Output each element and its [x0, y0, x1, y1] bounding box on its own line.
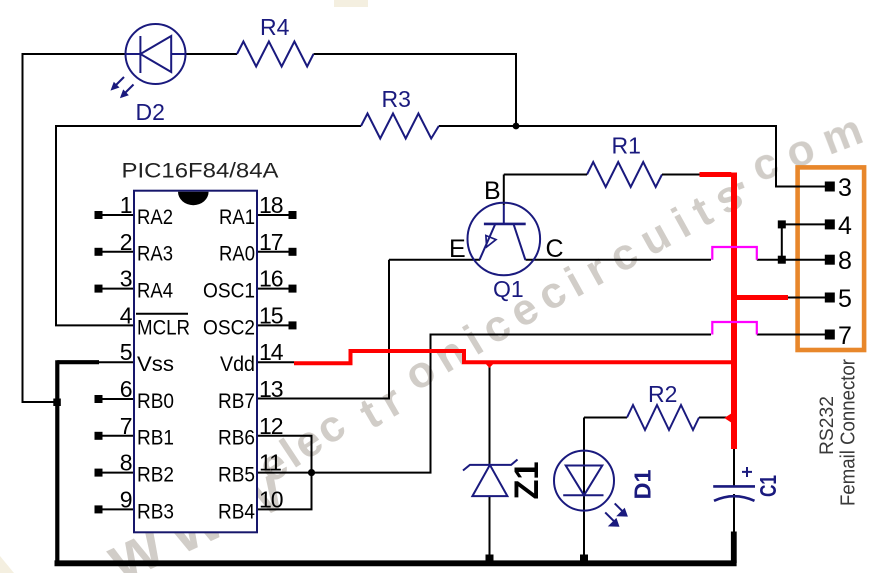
svg-text:4: 4: [120, 302, 133, 328]
svg-text:14: 14: [259, 339, 284, 365]
svg-text:8: 8: [120, 450, 132, 476]
svg-text:5: 5: [120, 339, 132, 365]
svg-text:B: B: [484, 177, 501, 205]
svg-text:Femail Connector: Femail Connector: [838, 359, 860, 506]
svg-text:RA4: RA4: [137, 280, 173, 303]
svg-text:MCLR: MCLR: [137, 316, 190, 339]
svg-text:18: 18: [259, 192, 283, 218]
svg-text:R3: R3: [382, 86, 411, 112]
svg-text:PIC16F84/84A: PIC16F84/84A: [122, 158, 280, 182]
svg-text:Vdd: Vdd: [220, 353, 255, 376]
svg-text:3: 3: [120, 266, 132, 292]
svg-text:RA1: RA1: [219, 206, 255, 229]
svg-text:E: E: [449, 235, 466, 263]
svg-text:RB6: RB6: [218, 427, 255, 450]
svg-text:9: 9: [120, 486, 132, 512]
svg-text:2: 2: [120, 229, 132, 255]
svg-text:Vss: Vss: [137, 353, 174, 376]
svg-text:RA3: RA3: [137, 243, 173, 266]
svg-text:R2: R2: [648, 381, 677, 407]
svg-text:RB1: RB1: [137, 427, 174, 450]
svg-text:10: 10: [259, 486, 283, 512]
svg-text:11: 11: [259, 450, 281, 476]
svg-text:C: C: [546, 235, 564, 263]
svg-text:13: 13: [259, 376, 283, 402]
svg-text:12: 12: [259, 413, 283, 439]
svg-text:5: 5: [838, 285, 852, 313]
svg-text:R4: R4: [260, 14, 290, 40]
svg-text:1: 1: [120, 192, 132, 218]
svg-text:R1: R1: [612, 133, 641, 159]
svg-text:D2: D2: [136, 99, 165, 125]
svg-text:3: 3: [838, 174, 852, 202]
svg-text:Z1: Z1: [508, 462, 546, 500]
svg-text:OSC2: OSC2: [203, 316, 255, 339]
svg-text:15: 15: [259, 302, 283, 328]
svg-text:RA2: RA2: [137, 206, 173, 229]
svg-text:RB7: RB7: [218, 390, 255, 413]
svg-text:7: 7: [120, 413, 132, 439]
svg-text:4: 4: [838, 212, 852, 240]
svg-text:17: 17: [259, 229, 283, 255]
svg-text:RB3: RB3: [137, 500, 174, 523]
svg-text:16: 16: [259, 266, 283, 292]
svg-text:RB2: RB2: [137, 464, 174, 487]
svg-text:RB0: RB0: [137, 390, 174, 413]
svg-text:RA0: RA0: [219, 243, 255, 266]
svg-text:6: 6: [120, 376, 132, 402]
svg-text:C1: C1: [755, 475, 781, 497]
svg-text:D1: D1: [630, 469, 656, 499]
svg-text:RB4: RB4: [218, 500, 255, 523]
svg-text:7: 7: [838, 322, 852, 350]
svg-text:RB5: RB5: [218, 464, 255, 487]
svg-text:OSC1: OSC1: [203, 280, 255, 303]
svg-text:8: 8: [838, 247, 852, 275]
svg-text:Q1: Q1: [493, 276, 524, 302]
svg-text:RS232: RS232: [816, 396, 838, 455]
